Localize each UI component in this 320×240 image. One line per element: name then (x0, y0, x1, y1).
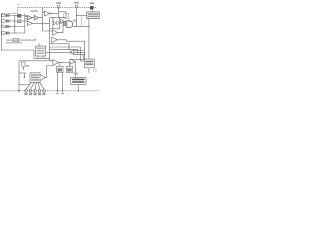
IC boundary step vertical dashed (17, 7, 19, 13)
pin label P2 (29, 93, 32, 95)
bubble U3 out (50, 13, 51, 14)
wire B5 top stub (75, 75, 77, 78)
stub B3 bottom b (42, 56, 44, 58)
node under B3 b (40, 58, 41, 59)
diode D5 cluster (71, 50, 74, 55)
wire x83.2 down (82, 54, 84, 59)
IC boundary top dashed line (18, 6, 97, 8)
wire bus y41.5 to right (66, 41, 84, 59)
wire corner to reference (33, 50, 35, 58)
comparator U6 (57, 21, 60, 25)
B5 bar2 (72, 81, 85, 83)
vertical wire x19.7 (18, 61, 20, 91)
wire branch x81.5 (81, 16, 83, 27)
wire y65.8 short (47, 65, 54, 67)
node B6 tr (59, 17, 60, 18)
wire y59.5 (70, 59, 84, 61)
wire U2 out (39, 12, 45, 17)
faint mark right (93, 68, 98, 72)
resistor R3 row3 (2, 25, 5, 28)
node x77.8 (77, 50, 78, 51)
node trio b (84, 54, 85, 55)
arrow marker lower shaft (23, 73, 25, 77)
label above B5 (74, 72, 78, 74)
pin circle P1 (25, 89, 28, 92)
pin circle P5 (43, 89, 46, 92)
wire VIN branch (59, 12, 66, 18)
wire U4 out (32, 22, 49, 24)
label under M2 pin (61, 93, 64, 95)
node row4 (14, 32, 15, 33)
node U2 out (42, 17, 43, 18)
wire y17.7 right (60, 17, 66, 19)
wire trio y54.3 (74, 53, 85, 55)
node U1 in (26, 16, 27, 17)
node U6 out (63, 22, 64, 23)
comparator U11 (52, 37, 58, 42)
op-amp U3 (45, 11, 50, 16)
node U12 in (51, 60, 52, 61)
wire VIN down (58, 8, 60, 18)
logic block B4 (30, 73, 40, 83)
wire M2 down (62, 73, 64, 91)
driver box M1 (57, 66, 63, 72)
wire gate out (73, 25, 89, 27)
comparator U5 (54, 21, 57, 25)
node B5 bus (77, 90, 79, 92)
node M2 bus (62, 90, 64, 92)
B4 text row3 (31, 79, 39, 81)
diode D3 row3 (7, 26, 10, 28)
node M1 bus (57, 90, 59, 92)
wire to B1 (77, 15, 87, 17)
comparator U10 (52, 30, 58, 35)
wire bus y49.6 (50, 50, 78, 55)
node under B3 c (45, 58, 46, 59)
M2 inner element (68, 69, 72, 72)
wire bus y47 (50, 47, 81, 61)
node y49.6 x69 (69, 49, 70, 50)
comparator U13 (70, 59, 75, 64)
reference block B3 (36, 46, 46, 56)
terminal T2 circle (75, 5, 78, 8)
wire y73 branch (19, 72, 26, 74)
wire U12 out (59, 61, 70, 63)
resistor R4 row4 (2, 32, 5, 35)
bias box U7 (64, 13, 69, 18)
wire B1 down (88, 19, 90, 59)
op-amp U2 (34, 15, 39, 20)
gate U9 driver (67, 21, 73, 28)
pin label P4 (38, 93, 41, 95)
label current source (26, 65, 29, 67)
label T3 (90, 2, 94, 4)
wire U1-U2 (32, 17, 34, 19)
pin label P1 (24, 93, 27, 95)
wire trio y50.2 (74, 49, 85, 51)
wire flag riser (45, 66, 46, 78)
wire U11 out (57, 40, 66, 41)
B4 text row2 (31, 77, 39, 79)
stub M2 top (69, 62, 71, 66)
wire row4 (5, 32, 25, 34)
B4 text row1 (31, 74, 39, 76)
wire U10 out (58, 24, 63, 33)
node trio a (80, 52, 81, 53)
IC boundary left step dashed line (2, 12, 18, 14)
gate top stub (68, 18, 70, 21)
B4 fan stub c (35, 82, 36, 89)
node U2 in (33, 17, 34, 18)
wire y28.8 left (50, 28, 53, 30)
B1 text row1 (88, 13, 99, 15)
wire row1 (5, 15, 27, 17)
wire y60.8 long (19, 60, 53, 62)
op-amp U1 (27, 15, 32, 20)
wire row2 (5, 20, 27, 22)
pin label P3 (33, 93, 36, 95)
stub M1 top (59, 62, 61, 66)
wire trio y52.3 (74, 51, 85, 53)
left rail wire (0, 14, 2, 50)
pin circle P2 (29, 89, 32, 92)
diode D2 row2 (7, 20, 10, 22)
oscillator block B2 (84, 59, 94, 68)
wire left long y50 (1, 49, 34, 51)
wire T2 down (76, 8, 78, 27)
wire rail x24.8 (24, 14, 26, 33)
comparator block B6 (53, 18, 60, 29)
label T2 (74, 2, 79, 4)
wire y43.8 mid (50, 44, 69, 50)
wire y17.7 left (50, 17, 53, 19)
B3 text row2 (37, 50, 45, 51)
B4 fan stub a (26, 82, 31, 89)
pass element box row2 (17, 20, 21, 23)
stub into B3 top (38, 43, 40, 46)
diode D4 row4 (7, 32, 10, 34)
wire T3 down (91, 9, 93, 12)
label IC corner (17, 3, 20, 4)
B1 text row2 (88, 16, 99, 18)
wire under B3 (34, 57, 50, 59)
ground bus dashed line (1, 90, 100, 92)
B5 bar1 (72, 79, 85, 81)
node B6 bl (52, 28, 53, 29)
wire x42.4 down to U10 (42, 18, 52, 31)
M1 inner element (58, 69, 62, 72)
wire M1 down (57, 73, 59, 91)
op-amp U4 (27, 21, 32, 25)
node under B3 a (36, 58, 37, 59)
terminal T1 circle (57, 5, 60, 8)
stub B3 bottom a (37, 56, 39, 58)
label near gate (73, 20, 76, 22)
gate input box (64, 21, 66, 25)
label under M1 pin (56, 93, 59, 95)
wire x19.7 bottom branch (19, 84, 30, 86)
component box on wire (13, 38, 19, 41)
wire B3 right (46, 51, 71, 53)
node B6 tl (52, 17, 53, 18)
B4 fan stub e (40, 82, 44, 89)
label T1 (56, 2, 61, 4)
label above amps (31, 10, 39, 12)
wire B5 down (77, 85, 79, 91)
wire left mid lower (6, 42, 22, 44)
arrow marker lower head (24, 76, 26, 79)
wire row3 (5, 26, 25, 28)
comparator U8 (61, 19, 65, 23)
battery block B5 (70, 77, 86, 84)
node at B1 drop (88, 26, 89, 27)
B3 text row1 (37, 48, 45, 49)
node row2 (14, 20, 15, 21)
pin label P5 (42, 93, 45, 95)
B4 flag point (40, 75, 45, 81)
comparator U12 (53, 60, 59, 66)
wire left mid pair (6, 39, 36, 41)
B2 text row1 (85, 61, 93, 63)
diode D1 row1 (7, 15, 10, 17)
wire B2 bottom (88, 68, 90, 73)
pass element box row1 (17, 14, 21, 17)
node gate out (76, 26, 77, 27)
wire U13 out down (74, 62, 77, 75)
node row1 (14, 15, 15, 16)
wire into B2 (80, 60, 84, 62)
B4 fan stub b (31, 82, 35, 89)
node x19.7 bus (18, 90, 20, 92)
block B1 top-right (87, 12, 99, 19)
resistor R2 row2 (2, 20, 5, 23)
wire U6 out (60, 22, 64, 24)
driver box M2 (66, 66, 73, 72)
current source arrow (22, 66, 24, 69)
B3 text row3 (37, 53, 45, 54)
node row3 (14, 26, 15, 27)
wire x42.4 up to boundary (41, 7, 43, 12)
B4 fan stub d (38, 82, 39, 89)
wire U1 in (25, 17, 27, 19)
terminal T3 pad (90, 6, 94, 9)
resistor R1 row1 (2, 14, 5, 17)
tick jog (35, 39, 37, 41)
wire node rail x15 (14, 16, 16, 34)
node T2 wire (76, 15, 77, 16)
pin circle P4 (38, 89, 41, 92)
B2 text row2 (85, 63, 93, 65)
pin circle P3 (34, 89, 37, 92)
current source box (22, 62, 25, 66)
rail x49.6 (49, 18, 51, 61)
wire U3 out (51, 13, 59, 15)
